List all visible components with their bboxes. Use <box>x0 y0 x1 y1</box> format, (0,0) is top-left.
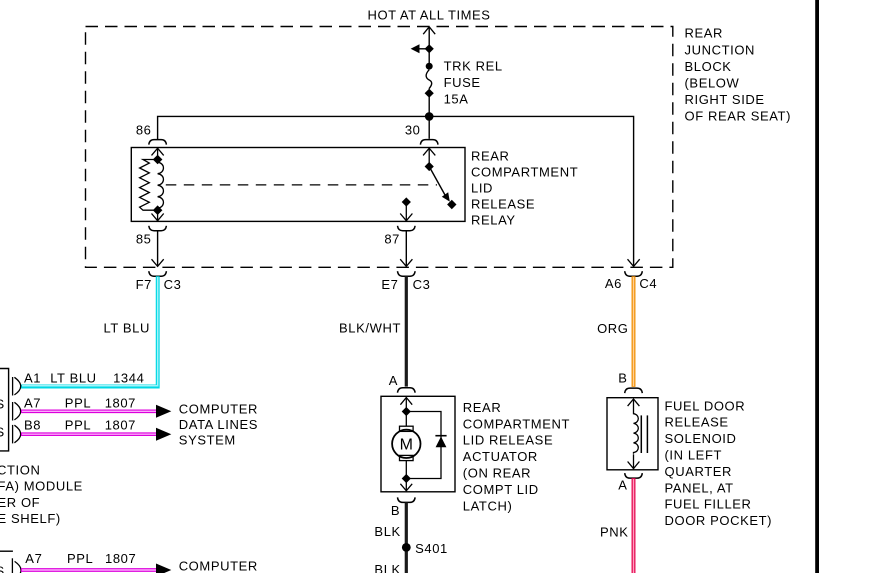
svg-text:S: S <box>0 397 5 412</box>
svg-text:S: S <box>0 563 5 573</box>
svg-text:E SHELF): E SHELF) <box>0 511 61 526</box>
svg-text:S401: S401 <box>415 541 448 556</box>
relay box: REAR COMPARTMENT LID RELEASE RELAY <box>131 148 465 222</box>
wire BLK to S401 <box>405 502 408 544</box>
arrow: wire entering connector C3 at E7 <box>400 259 412 266</box>
wire BLK below S401 <box>405 552 408 573</box>
relay switch (30 to 87) <box>400 148 456 221</box>
connector F7 C3 <box>149 271 167 276</box>
right border bar <box>815 0 819 573</box>
svg-text:REAR: REAR <box>685 26 724 41</box>
wire PPL 1807 (bottom, magenta) <box>21 568 156 572</box>
svg-text:RELAY: RELAY <box>471 212 516 227</box>
svg-text:COMPT LID: COMPT LID <box>463 482 539 497</box>
svg-text:PNK: PNK <box>600 525 629 540</box>
svg-text:SYSTEM: SYSTEM <box>179 433 236 448</box>
connector: module pin B8 <box>13 425 21 444</box>
actuator diode branch <box>406 412 446 479</box>
svg-text:PPL: PPL <box>65 417 91 432</box>
svg-text:LT BLU: LT BLU <box>50 370 96 385</box>
junction block dashed boundary <box>86 27 673 268</box>
svg-text:ORG: ORG <box>597 321 628 336</box>
connector: actuator pin A <box>398 388 416 393</box>
connector: actuator pin B <box>398 497 416 502</box>
svg-text:LID: LID <box>471 180 493 195</box>
wire: pin 85 to F7 <box>157 231 159 267</box>
svg-text:OF REAR SEAT): OF REAR SEAT) <box>685 109 792 124</box>
svg-text:REAR: REAR <box>463 400 502 415</box>
label row A1 LT BLU 1344 <box>24 370 144 385</box>
svg-text:1344: 1344 <box>113 370 144 385</box>
svg-text:C3: C3 <box>164 277 182 292</box>
svg-text:LT BLU: LT BLU <box>104 320 150 335</box>
svg-text:COMPUTER: COMPUTER <box>179 559 258 573</box>
svg-text:S: S <box>0 425 5 440</box>
node: bus junction dot <box>425 112 434 121</box>
wire: bus stub down to pin 30 <box>428 116 430 138</box>
svg-text:REAR: REAR <box>471 148 510 163</box>
wire PNK <box>632 478 636 573</box>
wire ORG <box>632 276 636 387</box>
arrow: PPL wire to computer data lines (bottom) <box>156 564 171 573</box>
svg-text:C4: C4 <box>639 276 657 291</box>
connector: relay pin 86 <box>149 140 167 145</box>
label row B8 PPL 1807 <box>24 417 136 432</box>
svg-text:BLOCK: BLOCK <box>685 59 732 74</box>
arrow: battery feed entering junction block <box>423 27 435 34</box>
arrow: PPL wire to computer data lines <box>156 405 171 418</box>
svg-text:A6: A6 <box>605 276 622 291</box>
svg-text:30: 30 <box>405 123 421 138</box>
connector: relay pin 85 <box>149 226 167 231</box>
connector: module pin A1 <box>13 377 21 396</box>
node: coil top terminal <box>153 155 163 165</box>
svg-text:PPL: PPL <box>67 551 93 566</box>
label relay name <box>471 148 578 227</box>
svg-text:E7: E7 <box>381 277 398 292</box>
svg-text:F7: F7 <box>136 277 152 292</box>
svg-text:RELEASE: RELEASE <box>665 415 729 430</box>
wire BLK/WHT <box>405 276 408 386</box>
wire: branch to other circuits (left arrow) <box>411 44 430 53</box>
wire: fuse to bus <box>428 96 430 116</box>
label COMPUTER DATA LINES SYSTEM <box>179 402 258 448</box>
actuator box: REAR COMPARTMENT LID RELEASE ACTUATOR <box>381 396 455 492</box>
svg-text:B8: B8 <box>24 417 41 432</box>
svg-text:15A: 15A <box>444 92 469 107</box>
arrow: wire entering connector C3 at F7 <box>152 259 164 266</box>
RFA module box edge <box>0 369 9 451</box>
svg-text:DOOR POCKET): DOOR POCKET) <box>665 513 773 528</box>
svg-text:86: 86 <box>136 123 152 138</box>
svg-text:RIGHT SIDE: RIGHT SIDE <box>685 92 765 107</box>
label solenoid name <box>665 398 773 528</box>
svg-text:RELEASE: RELEASE <box>471 196 535 211</box>
svg-text:DATA LINES: DATA LINES <box>179 417 258 432</box>
svg-text:87: 87 <box>384 232 400 247</box>
node: coil bottom terminal <box>153 205 163 215</box>
svg-text:TRK REL: TRK REL <box>444 59 503 74</box>
svg-text:ER OF: ER OF <box>0 495 40 510</box>
label row A7 PPL 1807 (bottom) <box>25 551 136 566</box>
svg-text:HOT AT ALL TIMES: HOT AT ALL TIMES <box>368 8 491 23</box>
node: branch junction <box>425 44 434 53</box>
svg-text:FUSE: FUSE <box>444 75 481 90</box>
wire: feed down to fuse <box>428 27 430 63</box>
arrow: PPL wire to computer data lines <box>156 428 171 441</box>
svg-text:BLK: BLK <box>374 562 400 573</box>
label actuator name <box>463 400 570 513</box>
svg-text:1807: 1807 <box>105 396 136 411</box>
solenoid coil <box>628 399 648 469</box>
svg-text:JUNCTION: JUNCTION <box>685 42 756 57</box>
svg-text:LID RELEASE: LID RELEASE <box>463 433 553 448</box>
relay coil (86 to 85) <box>140 148 164 221</box>
svg-text:LATCH): LATCH) <box>463 498 513 513</box>
connector: solenoid pin A <box>625 473 643 478</box>
svg-text:A: A <box>618 477 627 492</box>
connector: relay pin 87 <box>398 226 416 231</box>
svg-text:BLK/WHT: BLK/WHT <box>339 320 401 335</box>
svg-text:ACTUATOR: ACTUATOR <box>463 449 538 464</box>
svg-text:FA) MODULE: FA) MODULE <box>0 479 83 494</box>
second module box edge <box>0 550 13 552</box>
svg-text:CTION: CTION <box>0 462 40 477</box>
connector: solenoid pin B <box>625 388 643 393</box>
svg-text:FUEL DOOR: FUEL DOOR <box>665 398 746 413</box>
svg-text:C3: C3 <box>413 277 431 292</box>
svg-text:COMPARTMENT: COMPARTMENT <box>471 164 578 179</box>
svg-text:1807: 1807 <box>105 417 136 432</box>
svg-text:(BELOW: (BELOW <box>685 76 740 91</box>
wire PPL 1807 (B8, magenta) <box>21 432 156 436</box>
fuse TRK REL 15A <box>425 63 434 98</box>
wire PPL 1807 (A7, magenta) <box>21 409 156 413</box>
svg-text:A1: A1 <box>24 370 41 385</box>
connector E7 C3 <box>398 271 416 276</box>
svg-text:A7: A7 <box>25 551 42 566</box>
connector A6 C4 <box>625 271 643 276</box>
splice S401 <box>402 543 411 552</box>
connector: second module pin A7 <box>12 558 21 573</box>
svg-text:B: B <box>618 371 627 386</box>
svg-text:B: B <box>391 503 400 518</box>
solenoid box: FUEL DOOR RELEASE SOLENOID <box>607 398 658 470</box>
relay internal dashed link <box>166 184 437 186</box>
svg-text:PANEL, AT: PANEL, AT <box>665 480 734 495</box>
connector: module pin A7 <box>13 402 21 421</box>
label REAR JUNCTION BLOCK (BELOW RIGHT SIDE OF REAR SEAT) <box>685 26 792 124</box>
svg-text:1807: 1807 <box>105 551 136 566</box>
svg-text:A7: A7 <box>24 396 41 411</box>
svg-text:PPL: PPL <box>65 396 91 411</box>
label module name fragments <box>0 462 83 526</box>
svg-text:M: M <box>400 437 413 454</box>
svg-text:FUEL FILLER: FUEL FILLER <box>665 497 752 512</box>
wire: bus from pin 86 over pin 30 to A6 <box>158 116 634 265</box>
svg-text:A: A <box>389 373 398 388</box>
svg-text:COMPARTMENT: COMPARTMENT <box>463 416 570 431</box>
svg-text:SOLENOID: SOLENOID <box>665 431 737 446</box>
svg-text:(ON REAR: (ON REAR <box>463 466 531 481</box>
wire LT BLU 1344 (cyan) <box>21 276 158 386</box>
connector: relay pin 30 <box>420 140 438 145</box>
actuator motor branch <box>392 398 420 491</box>
svg-text:COMPUTER: COMPUTER <box>179 402 258 417</box>
svg-text:(IN LEFT: (IN LEFT <box>665 448 723 463</box>
arrow: wire entering connector C4 at A6 <box>628 259 640 266</box>
label row A7 PPL 1807 <box>24 396 136 411</box>
wire: pin 87 to E7 <box>405 231 407 267</box>
svg-text:QUARTER: QUARTER <box>665 464 733 479</box>
svg-text:85: 85 <box>136 232 152 247</box>
label TRK REL FUSE 15A <box>444 59 503 107</box>
svg-text:BLK: BLK <box>374 524 400 539</box>
